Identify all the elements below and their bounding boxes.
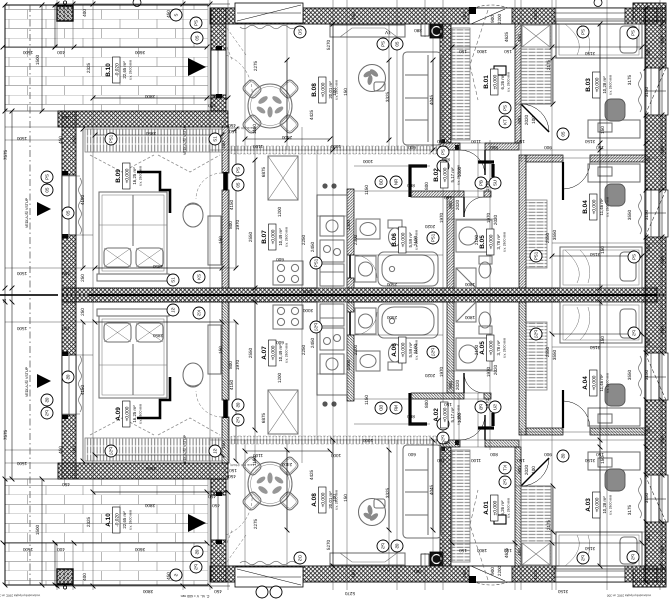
svg-text:150: 150	[437, 139, 445, 144]
right exterior wall	[645, 8, 666, 295]
svg-text:3600: 3600	[134, 547, 145, 552]
svg-text:05: 05	[561, 131, 566, 136]
svg-text:4150: 4150	[80, 384, 85, 395]
wardrobe hall B.01	[452, 28, 470, 140]
svg-text:5,17 m²: 5,17 m²	[450, 167, 455, 182]
svg-text:800: 800	[407, 183, 415, 188]
svg-text:3850: 3850	[145, 466, 156, 471]
wardrobe width dim	[93, 133, 225, 138]
svg-text:PS1: PS1	[431, 233, 436, 242]
svg-text:450: 450	[517, 548, 522, 556]
coffee table	[359, 65, 386, 92]
central party wall half	[62, 288, 657, 295]
svg-text:150: 150	[600, 456, 605, 464]
svg-text:3150: 3150	[584, 546, 595, 551]
svg-text:450: 450	[646, 338, 651, 346]
svg-text:3175: 3175	[627, 74, 632, 85]
svg-text:3850: 3850	[152, 264, 163, 269]
svg-text:450: 450	[166, 572, 171, 580]
terrace top edge	[5, 4, 208, 6]
svg-text:05: 05	[195, 35, 200, 40]
svg-text:150: 150	[444, 195, 452, 200]
svg-text:KT: KT	[503, 119, 508, 125]
svg-text:s.v. 2600 mm: s.v. 2600 mm	[503, 232, 507, 252]
svg-text:800: 800	[490, 145, 498, 150]
svg-text:3150: 3150	[557, 589, 568, 594]
living height dim	[331, 22, 336, 153]
svg-text:450: 450	[62, 326, 70, 331]
symbol circle PB	[475, 177, 487, 189]
desk B.04	[588, 164, 640, 182]
left entrance arrow	[37, 202, 51, 216]
svg-text:5270: 5270	[326, 39, 331, 50]
svg-text:s.v. 2600 mm: s.v. 2600 mm	[609, 495, 613, 515]
svg-text:1800: 1800	[464, 282, 475, 287]
svg-text:2020: 2020	[424, 373, 435, 378]
svg-text:2400: 2400	[281, 462, 292, 467]
svg-text:450: 450	[166, 10, 171, 18]
shoe niche	[494, 66, 506, 75]
svg-text:05: 05	[236, 182, 241, 187]
svg-text:B.03: B.03	[585, 78, 592, 92]
svg-text:2200: 2200	[497, 13, 502, 24]
svg-text:450: 450	[462, 570, 467, 578]
svg-text:4150: 4150	[229, 379, 234, 390]
svg-text:450: 450	[646, 48, 651, 56]
svg-text:VEDĽAJŠÍ VSTUP: VEDĽAJŠÍ VSTUP	[182, 124, 187, 155]
svg-text:TV: TV	[384, 30, 391, 35]
living dim 4425	[285, 58, 290, 143]
wardrobe B.03	[521, 24, 551, 104]
svg-text:3800: 3800	[144, 503, 155, 508]
svg-text:PS: PS	[45, 174, 50, 180]
symbol circle KT	[499, 116, 511, 128]
svg-text:3550: 3550	[627, 369, 632, 380]
partition B.02-B.05 a	[411, 191, 464, 197]
svg-text:s.v. 2600 mm: s.v. 2600 mm	[507, 72, 511, 92]
svg-text:PS: PS	[631, 30, 636, 36]
svg-text:450: 450	[228, 474, 236, 479]
svg-text:250: 250	[80, 308, 85, 316]
svg-text:s.v. 2600 mm: s.v. 2600 mm	[609, 75, 613, 95]
svg-text:1500: 1500	[16, 461, 27, 466]
axis bubble top a	[133, 0, 141, 7]
room label B.08	[311, 77, 339, 103]
dining table	[248, 84, 292, 128]
svg-text:4425: 4425	[533, 9, 538, 20]
ext line chimney b	[72, 0, 74, 47]
svg-text:3800: 3800	[142, 589, 153, 594]
kitchen counter	[317, 195, 347, 288]
svg-text:s.v. 2600 mm: s.v. 2600 mm	[285, 227, 289, 247]
window B.03 top	[555, 8, 625, 24]
svg-text:10,28 m²: 10,28 m²	[602, 76, 607, 94]
svg-text:+0,000: +0,000	[489, 234, 495, 249]
svg-text:PS: PS	[503, 105, 508, 111]
hall south wall b	[485, 143, 519, 150]
svg-text:PS: PS	[381, 41, 386, 47]
svg-text:10,49 m²: 10,49 m²	[278, 228, 283, 246]
svg-text:1500: 1500	[22, 547, 33, 552]
svg-text:4150: 4150	[80, 194, 85, 205]
svg-text:VEDĽAJŠÍ VSTUP: VEDĽAJŠÍ VSTUP	[182, 434, 187, 465]
svg-text:2550: 2550	[248, 347, 253, 358]
WC B.06	[388, 220, 402, 228]
svg-text:150: 150	[600, 126, 605, 134]
symbol circle S	[170, 9, 182, 21]
bed B.04	[560, 247, 642, 288]
svg-text:2300: 2300	[346, 359, 351, 370]
svg-text:150: 150	[229, 468, 237, 473]
svg-text:4625: 4625	[504, 31, 509, 42]
curtain right B.04	[639, 194, 642, 234]
property dashline left	[29, 5, 31, 295]
room label B.02	[433, 162, 461, 188]
svg-text:05: 05	[395, 41, 400, 46]
double bed	[99, 192, 167, 274]
terrace top dim chain	[1, 45, 210, 50]
partition bedroom-corridor lower	[222, 190, 229, 288]
svg-text:4045: 4045	[429, 484, 434, 495]
partition corridor-bath lower	[347, 278, 354, 288]
symbol circle PS1	[530, 250, 542, 262]
svg-text:450: 450	[58, 136, 63, 144]
svg-text:4425: 4425	[309, 469, 314, 480]
symbol circle OS	[294, 26, 306, 38]
symbol circle 05	[191, 32, 203, 44]
hall width dim	[450, 45, 518, 50]
svg-text:380: 380	[414, 569, 422, 574]
B.03 dim	[551, 56, 556, 107]
svg-text:4625: 4625	[504, 547, 509, 558]
svg-text:900: 900	[544, 145, 552, 150]
svg-text:4045: 4045	[429, 94, 434, 105]
living dim 3325	[387, 58, 392, 143]
symbol circle 05	[41, 184, 53, 196]
svg-text:250: 250	[646, 426, 651, 434]
room label B.09	[115, 163, 143, 189]
svg-text:1000: 1000	[330, 453, 341, 458]
svg-text:7575: 7575	[3, 149, 8, 160]
svg-text:S: S	[174, 13, 179, 16]
svg-text:B.07: B.07	[261, 230, 268, 244]
svg-text:1150: 1150	[364, 185, 369, 195]
svg-text:PB: PB	[479, 180, 484, 186]
svg-text:A.10: A.10	[105, 513, 112, 527]
svg-text:3150: 3150	[584, 51, 595, 56]
svg-text:800: 800	[424, 182, 429, 190]
svg-text:150: 150	[600, 336, 605, 344]
svg-text:6,26 m²: 6,26 m²	[500, 74, 505, 89]
room label A.08	[311, 487, 339, 513]
svg-text:450: 450	[208, 103, 216, 108]
svg-text:1970: 1970	[486, 366, 491, 377]
svg-text:1970: 1970	[439, 366, 444, 377]
svg-text:3150: 3150	[644, 86, 649, 97]
top exterior wall	[210, 8, 657, 24]
svg-text:KS: KS	[197, 274, 202, 280]
svg-text:A.08: A.08	[311, 493, 318, 507]
svg-text:2300: 2300	[353, 234, 358, 245]
symbol circle PS	[627, 27, 639, 39]
svg-text:2020: 2020	[424, 224, 435, 229]
svg-text:16,25 m²: 16,25 m²	[132, 167, 137, 185]
svg-text:400: 400	[57, 50, 65, 55]
svg-text:2020: 2020	[524, 114, 529, 125]
svg-text:s.v. 2600 mm: s.v. 2600 mm	[285, 343, 289, 363]
svg-text:450: 450	[212, 94, 220, 99]
svg-text:150: 150	[221, 141, 226, 149]
svg-text:900: 900	[490, 567, 495, 575]
svg-text:A.04: A.04	[582, 376, 589, 390]
svg-text:2400: 2400	[281, 135, 292, 140]
svg-text:800: 800	[228, 361, 233, 369]
svg-text:450: 450	[351, 570, 356, 578]
table plant	[256, 95, 285, 118]
door B.04	[563, 162, 590, 189]
svg-text:800: 800	[490, 452, 498, 457]
partition B.05-B.04	[519, 155, 526, 288]
room label A.10	[105, 507, 133, 533]
door B.02 from hall	[460, 150, 485, 175]
svg-text:450: 450	[462, 12, 467, 20]
svg-text:vodovodná prípojka 290C un 300: vodovodná prípojka 290C un 300	[607, 594, 652, 598]
svg-text:B.02: B.02	[433, 168, 440, 182]
svg-text:400: 400	[57, 547, 65, 552]
room label B.06	[391, 227, 419, 253]
B.04 north wall b	[590, 155, 645, 162]
partition shaft B.06-B.05	[447, 197, 454, 288]
svg-text:850: 850	[442, 440, 450, 445]
room label B.03	[585, 72, 613, 98]
svg-text:S1: S1	[171, 277, 176, 283]
terrace-living wall	[211, 8, 226, 111]
room label B.10	[105, 57, 133, 83]
svg-text:-0,020: -0,020	[115, 513, 121, 527]
symbol circle NR	[390, 176, 402, 188]
svg-text:600: 600	[276, 257, 284, 262]
svg-text:TV: TV	[384, 567, 391, 572]
svg-text:3150: 3150	[644, 369, 649, 380]
svg-text:s.v. 2600 mm: s.v. 2600 mm	[606, 373, 610, 393]
svg-text:250: 250	[72, 136, 77, 144]
svg-text:1800: 1800	[476, 49, 487, 54]
symbol circle 05	[437, 160, 449, 172]
svg-text:150: 150	[343, 88, 348, 96]
door jamb stubs	[216, 46, 222, 51]
room label A.03	[585, 492, 613, 518]
svg-text:2020: 2020	[493, 364, 498, 375]
symbol circle S1	[167, 274, 179, 286]
armchair	[183, 203, 203, 227]
kitchen dashed band	[231, 146, 447, 154]
washer	[355, 256, 376, 282]
svg-text:+0,000: +0,000	[321, 492, 327, 507]
svg-text:+0,000: +0,000	[592, 199, 598, 214]
svg-text:Lavle 600 (PRAH): Lavle 600 (PRAH)	[230, 126, 254, 130]
symbol circle 05	[557, 128, 569, 140]
svg-text:100: 100	[332, 494, 337, 502]
svg-text:800: 800	[228, 221, 233, 229]
svg-text:s.v. 2600 mm: s.v. 2600 mm	[129, 510, 133, 530]
flue black box	[430, 24, 443, 38]
svg-text:+0,000: +0,000	[443, 167, 449, 182]
svg-text:150: 150	[218, 236, 223, 244]
svg-text:+0,000: +0,000	[401, 232, 407, 247]
svg-text:PS1: PS1	[534, 251, 539, 260]
svg-text:450: 450	[646, 534, 651, 542]
svg-text:6875: 6875	[261, 412, 266, 423]
svg-text:16,25 m²: 16,25 m²	[132, 405, 137, 423]
svg-text:11,46 m²: 11,46 m²	[599, 198, 604, 216]
svg-text:2500: 2500	[386, 282, 397, 287]
svg-text:s.v. 2600 mm: s.v. 2600 mm	[139, 166, 143, 186]
svg-text:VEDĽAJŠÍ VSTUP: VEDĽAJŠÍ VSTUP	[24, 197, 29, 228]
svg-text:1100: 1100	[471, 139, 481, 144]
svg-text:3550: 3550	[552, 349, 557, 360]
svg-text:250: 250	[660, 146, 665, 154]
svg-text:1100: 1100	[253, 144, 263, 149]
symbol circle BD	[375, 176, 387, 188]
symbol circle PS	[41, 171, 53, 183]
extension lines vertical	[92, 0, 94, 295]
svg-text:150: 150	[343, 494, 348, 502]
svg-text:1970: 1970	[485, 180, 490, 191]
svg-text:2300: 2300	[346, 219, 351, 230]
sink B.06	[356, 219, 380, 239]
svg-text:3550: 3550	[627, 209, 632, 220]
extension lines horizontal	[3, 46, 207, 48]
partition bedroom-corridor upper	[222, 127, 229, 173]
svg-text:PS: PS	[441, 149, 446, 155]
hall circulation dashed	[470, 10, 488, 100]
svg-text:A.03: A.03	[585, 498, 592, 512]
svg-text:150: 150	[504, 49, 512, 54]
svg-text:150: 150	[218, 346, 223, 354]
svg-text:+0,000: +0,000	[125, 406, 131, 421]
partition B.01-B.03	[515, 24, 521, 143]
svg-text:450: 450	[62, 482, 70, 487]
wall living-hall B.01	[440, 24, 451, 143]
svg-text:400: 400	[82, 573, 87, 581]
svg-text:1970: 1970	[439, 212, 444, 223]
svg-text:3150: 3150	[584, 139, 595, 144]
svg-text:+0,000: +0,000	[271, 229, 277, 244]
svg-text:NR: NR	[394, 179, 399, 185]
svg-text:A.05: A.05	[479, 341, 486, 355]
svg-text:800: 800	[407, 414, 415, 419]
window B.04 right	[645, 190, 659, 237]
svg-text:+0,000: +0,000	[125, 168, 131, 183]
ext line chimney a	[56, 0, 58, 47]
partition B.02-B.05 b	[484, 191, 491, 197]
svg-text:250: 250	[646, 156, 651, 164]
svg-text:3000: 3000	[302, 308, 313, 313]
cooktop	[273, 261, 303, 285]
desk B.03	[588, 120, 640, 138]
symbol circle PS	[190, 17, 202, 29]
svg-text:B.09: B.09	[115, 169, 122, 183]
svg-text:2550: 2550	[248, 231, 253, 242]
svg-text:450: 450	[214, 589, 222, 594]
dining dim	[243, 137, 333, 142]
svg-text:850: 850	[442, 157, 450, 162]
window B.03 right	[645, 68, 659, 115]
svg-text:150: 150	[600, 246, 605, 254]
wardrobe bedroom	[85, 129, 222, 152]
svg-text:900: 900	[448, 381, 453, 389]
B.04 width dim	[550, 254, 645, 259]
svg-text:30: 30	[2, 298, 7, 303]
svg-text:4425: 4425	[533, 569, 538, 580]
svg-text:10,49 m²: 10,49 m²	[278, 344, 283, 362]
svg-text:3175: 3175	[627, 504, 632, 515]
svg-text:900: 900	[490, 15, 495, 23]
left overall dim	[3, 3, 8, 295]
svg-text:400: 400	[82, 9, 87, 17]
svg-text:2100: 2100	[474, 234, 479, 245]
section line left center	[0, 293, 58, 296]
left terrace dim	[40, 3, 45, 114]
svg-text:7575: 7575	[3, 429, 8, 440]
svg-text:2325: 2325	[86, 516, 91, 527]
svg-text:150: 150	[517, 458, 525, 463]
B.02 thick walls	[410, 166, 427, 197]
window bedroom left	[62, 175, 76, 235]
svg-text:1000: 1000	[457, 412, 462, 423]
svg-text:10,28 m²: 10,28 m²	[602, 496, 607, 514]
svg-text:VEDĽAJŠÍ VSTUP: VEDĽAJŠÍ VSTUP	[24, 366, 29, 397]
svg-text:B.08: B.08	[311, 83, 318, 97]
room label A.05	[479, 335, 507, 361]
svg-text:5270: 5270	[326, 539, 331, 550]
room label B.05	[479, 229, 507, 255]
svg-text:Lavle 600 (PRAH): Lavle 600 (PRAH)	[230, 463, 254, 467]
svg-text:450: 450	[58, 446, 63, 454]
svg-text:05: 05	[45, 187, 50, 192]
svg-text:S1: S1	[213, 136, 218, 142]
entrance door swing outward	[472, 5, 511, 9]
room label B.01	[483, 69, 511, 95]
bedroom top wall	[58, 111, 228, 127]
svg-text:2450: 2450	[310, 241, 315, 252]
terrace door opening	[211, 50, 226, 95]
living room window top	[235, 3, 303, 23]
room label A.01	[483, 495, 511, 521]
bottom edge circles	[256, 586, 268, 598]
left exterior wall	[62, 111, 76, 295]
svg-text:1000: 1000	[362, 159, 373, 164]
svg-text:2250: 2250	[301, 344, 306, 355]
hall south wall a	[440, 143, 460, 150]
svg-text:450: 450	[660, 36, 665, 44]
terrace left edge	[4, 5, 6, 111]
svg-text:4425: 4425	[309, 109, 314, 120]
svg-text:s.v. 2600 mm: s.v. 2600 mm	[503, 338, 507, 358]
axis bubble top b	[594, 0, 602, 7]
svg-text:1200: 1200	[277, 206, 282, 217]
svg-text:450: 450	[212, 503, 220, 508]
svg-text:-0,020: -0,020	[115, 63, 121, 77]
svg-text:1500: 1500	[35, 524, 40, 535]
svg-text:2500: 2500	[386, 315, 397, 320]
svg-text:6875: 6875	[261, 166, 266, 177]
svg-text:1000: 1000	[457, 166, 462, 177]
svg-text:1150: 1150	[364, 395, 369, 405]
svg-text:5,17 m²: 5,17 m²	[450, 407, 455, 422]
svg-text:s.v. 2600 mm: s.v. 2600 mm	[606, 197, 610, 217]
svg-text:3800: 3800	[144, 94, 155, 99]
